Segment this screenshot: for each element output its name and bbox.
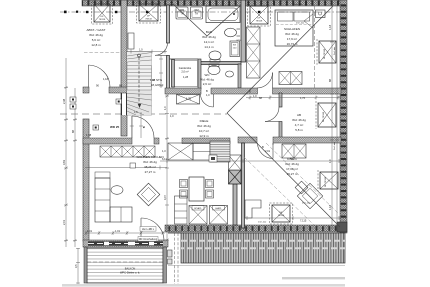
- svg-text:TR: TR: [195, 13, 198, 16]
- roof hip line east: [227, 6, 333, 113]
- svg-text:17,9 m²: 17,9 m²: [287, 37, 297, 41]
- svg-text:DF 78/118: DF 78/118: [324, 48, 326, 59]
- room label diele: [197, 119, 211, 138]
- svg-text:12,9 m: 12,9 m: [199, 134, 209, 138]
- svg-text:2m Linie: 2m Linie: [334, 46, 336, 55]
- svg-text:Wd: 46 dg: Wd: 46 dg: [285, 162, 299, 166]
- svg-text:38,26 m²: 38,26 m²: [144, 165, 156, 169]
- svg-text:1,38: 1,38: [86, 133, 92, 137]
- wall bath/bedroom: [241, 0, 246, 62]
- wall bath left: [167, 5, 170, 89]
- svg-text:Garderobe: Garderobe: [179, 66, 192, 70]
- svg-text:2,6 m²: 2,6 m²: [203, 82, 212, 86]
- wall ab left: [279, 93, 282, 138]
- svg-text:1,01: 1,01: [87, 229, 93, 233]
- svg-text:2m Linie: 2m Linie: [296, 23, 305, 25]
- desk kind: [245, 200, 261, 218]
- svg-text:1m Linie: 1m Linie: [258, 222, 267, 224]
- svg-text:SP/APL: SP/APL: [194, 207, 202, 210]
- dresser bedroom south (x-box): [279, 72, 302, 85]
- washbasin bath: [225, 28, 241, 37]
- room label kind: [285, 157, 299, 176]
- 2m line dash abst: [84, 52, 121, 54]
- svg-text:17,09 m²: 17,09 m²: [286, 167, 298, 171]
- dining chairs: [180, 180, 214, 199]
- svg-text:RD Umschaltung: RD Umschaltung: [139, 238, 158, 241]
- wall garderobe right: [198, 59, 201, 89]
- wm tr labels: [180, 9, 242, 50]
- dimension chain kind south: [245, 216, 341, 220]
- toilet wc: [208, 64, 220, 75]
- nightstand right: [316, 10, 326, 18]
- wall wc top: [200, 62, 241, 65]
- balcony deck: [84, 247, 167, 283]
- chimney wall center: [121, 0, 127, 136]
- svg-text:78/118: 78/118: [99, 19, 106, 21]
- dimension chain left outside: [64, 58, 77, 247]
- wall kind north: [238, 137, 341, 143]
- kitchen wall units: [168, 141, 230, 162]
- wall living south (balcony front): [83, 240, 168, 247]
- room label balkon: [120, 267, 140, 275]
- svg-text:1,0: 1,0: [328, 159, 332, 163]
- washing machine WM: [176, 7, 188, 19]
- svg-text:B: B: [206, 89, 208, 93]
- svg-text:4,7 m²: 4,7 m²: [295, 123, 304, 127]
- 2m line dash bedroom vertical: [314, 6, 316, 88]
- marker squares left wall: [70, 97, 217, 168]
- svg-text:SCHLAFEN: SCHLAFEN: [284, 27, 300, 31]
- door D6 kind: [258, 143, 274, 159]
- svg-text:H/APL: H/APL: [215, 207, 222, 210]
- svg-text:6,11: 6,11: [162, 157, 167, 161]
- wall kitchen right: [233, 184, 237, 225]
- svg-text:4,07: 4,07: [163, 194, 167, 200]
- exterior wall bottom (south, rooms): [165, 222, 347, 232]
- svg-text:12,8 m: 12,8 m: [91, 43, 101, 47]
- svg-text:1,0: 1,0: [139, 48, 143, 52]
- 2m linie labels: [258, 4, 336, 224]
- room label schlafen: [284, 27, 300, 46]
- skylight DF4 bedroom east: [317, 39, 336, 65]
- svg-text:⌀: ⌀: [143, 125, 145, 129]
- room label garderobe: [179, 66, 192, 74]
- svg-text:5,6 m²: 5,6 m²: [92, 38, 101, 42]
- exterior wall right: [340, 0, 347, 233]
- skylight DF2: [137, 2, 161, 23]
- svg-text:WC: WC: [205, 73, 211, 77]
- door D8 balcony: [141, 218, 164, 241]
- stair walk line: [138, 54, 142, 108]
- dining table: [189, 177, 204, 201]
- svg-text:1,01: 1,01: [115, 229, 121, 233]
- roof surface south: [168, 233, 345, 284]
- door D1 abst/gast: [89, 65, 111, 87]
- door D4 schlafen: [257, 73, 273, 89]
- svg-text:1,0: 1,0: [253, 94, 257, 98]
- room label abst/gast: [86, 28, 105, 47]
- stair label: [151, 78, 164, 87]
- downpipe right of balcony: [168, 250, 173, 264]
- dim texts small: [86, 75, 307, 233]
- sofa living: [95, 172, 132, 222]
- wardrobe kind north (x-box): [282, 144, 306, 158]
- svg-text:16,73 m: 16,73 m: [287, 42, 298, 46]
- room label wohnen kochen: [136, 155, 163, 174]
- section line markers top: [64, 11, 260, 14]
- door D7 living/hall: [132, 116, 154, 138]
- dimension chain living horizontal: [85, 159, 341, 170]
- skylight DF7 kind south: [270, 203, 293, 224]
- svg-text:3,5: 3,5: [74, 264, 78, 268]
- stair handrail nib: [128, 33, 134, 49]
- desk chair diamond kind: [295, 181, 323, 209]
- kitchen island: [189, 206, 228, 225]
- dimension hall verticals: [130, 112, 143, 138]
- section line middle (dash): [60, 113, 227, 115]
- svg-text:2m Linie: 2m Linie: [334, 141, 336, 150]
- door D3 wc: [201, 94, 214, 107]
- bed: [275, 10, 313, 46]
- svg-text:1,75: 1,75: [186, 97, 192, 101]
- wall living north left: [83, 138, 159, 144]
- svg-text:1,3: 1,3: [162, 149, 166, 153]
- svg-text:1,0: 1,0: [206, 93, 210, 97]
- dimension chain living south interior: [85, 231, 165, 235]
- wall kind left: [242, 143, 245, 228]
- svg-text:1,18: 1,18: [328, 204, 332, 210]
- svg-text:Wd: 46 dg: Wd: 46 dg: [292, 118, 306, 122]
- wall hall north (garderobe/wc south): [165, 88, 341, 94]
- wall diele north right: [182, 138, 230, 144]
- svg-text:78/118: 78/118: [256, 21, 263, 23]
- svg-text:AB: AB: [297, 113, 301, 117]
- svg-text:2,0 m²: 2,0 m²: [181, 70, 188, 74]
- staircase: [127, 52, 152, 115]
- roof valley line long: [227, 113, 340, 227]
- svg-text:WPC-Dielen o. ä.: WPC-Dielen o. ä.: [120, 271, 140, 275]
- svg-text:Wd: 46 dg: Wd: 46 dg: [143, 160, 157, 164]
- svg-text:2m Linie: 2m Linie: [302, 203, 311, 205]
- svg-text:2,01: 2,01: [62, 219, 66, 225]
- svg-text:27,27 m: 27,27 m: [145, 170, 156, 174]
- svg-text:7,115: 7,115: [300, 219, 307, 223]
- svg-text:12,1 m²: 12,1 m²: [204, 40, 214, 44]
- svg-text:15,27 m: 15,27 m: [287, 172, 298, 176]
- svg-text:1,0: 1,0: [134, 110, 138, 114]
- dryer TR: [191, 7, 203, 19]
- armchair diamond living: [137, 183, 160, 206]
- svg-text:1,18: 1,18: [103, 77, 109, 81]
- svg-text:TR: TR: [180, 13, 183, 16]
- svg-text:2m Linie: 2m Linie: [294, 4, 303, 6]
- kitchen tall cabinet: [175, 196, 188, 224]
- section line top (dash-dot): [60, 11, 345, 13]
- dimension chain balcony left: [76, 248, 80, 284]
- wall wc right: [238, 64, 241, 88]
- svg-text:DF 78/118: DF 78/118: [325, 176, 327, 187]
- dimension line east interior vertical: [330, 6, 339, 230]
- svg-text:3,63: 3,63: [62, 159, 66, 165]
- shower/shaft bath: [230, 41, 240, 57]
- svg-text:WD 25: WD 25: [110, 125, 120, 129]
- svg-text:14,1 m: 14,1 m: [204, 45, 214, 49]
- exterior wall top: [82, 0, 345, 6]
- svg-text:Wd: 46 dg: Wd: 46 dg: [89, 33, 103, 37]
- svg-text:Wd: 46 dg: Wd: 46 dg: [285, 32, 299, 36]
- sideboard living (x-row): [100, 146, 155, 157]
- wall garderobe top: [170, 58, 199, 60]
- closet hall (x-box): [229, 155, 242, 170]
- svg-text:Vent +RD L: Vent +RD L: [142, 228, 155, 231]
- dimension line stair top: [127, 50, 167, 54]
- svg-text:DF 78/118: DF 78/118: [323, 111, 325, 122]
- svg-text:1,38: 1,38: [150, 78, 156, 82]
- svg-text:B: B: [249, 90, 251, 94]
- dimension chain hall east horizontal: [246, 96, 341, 100]
- svg-text:18,4/25,0: 18,4/25,0: [151, 83, 164, 87]
- skylight DF6 kind east: [318, 170, 338, 191]
- skylight DF5 ab east: [316, 101, 336, 129]
- wardrobe hall (x-box under wall): [177, 95, 200, 105]
- svg-text:B: B: [262, 145, 264, 149]
- dimension line landing vertical: [159, 55, 163, 88]
- coffee table living: [111, 186, 123, 195]
- svg-text:BALKON: BALKON: [125, 267, 136, 271]
- svg-text:Wd: 46 dg: Wd: 46 dg: [200, 78, 214, 82]
- vent labels balcony door: [138, 227, 158, 242]
- chimney kitchen: [229, 170, 242, 184]
- toilet bath: [209, 51, 221, 62]
- dimension chain living interior vertical: [165, 94, 169, 241]
- svg-text:BAD: BAD: [206, 30, 213, 34]
- svg-text:1,76: 1,76: [300, 96, 306, 100]
- footer faint bars: [62, 284, 345, 287]
- svg-text:Wd: 46 dg: Wd: 46 dg: [202, 35, 216, 39]
- wall abst south (with door gap): [83, 87, 127, 93]
- skylight small labels: [99, 16, 285, 218]
- room label bad: [202, 30, 216, 49]
- bathtub: [206, 6, 240, 23]
- 2m line dash bedroom horizontal: [276, 24, 313, 26]
- washbasin wc: [226, 71, 234, 77]
- svg-text:10,7 m²: 10,7 m²: [199, 129, 209, 133]
- svg-text:1,18: 1,18: [328, 24, 332, 30]
- svg-text:DIELE: DIELE: [200, 119, 209, 123]
- room label wc: [200, 73, 214, 86]
- svg-text:90/: 90/: [233, 45, 236, 47]
- roof ridge lines bath: [173, 4, 240, 36]
- svg-text:5,8 m: 5,8 m: [295, 128, 303, 132]
- svg-text:2,38: 2,38: [62, 98, 66, 104]
- svg-text:2,01: 2,01: [265, 149, 271, 153]
- svg-text:WOHNEN KOCHEN: WOHNEN KOCHEN: [136, 155, 163, 159]
- svg-text:Wd: 46 dg: Wd: 46 dg: [197, 124, 211, 128]
- svg-text:1,28: 1,28: [183, 75, 189, 79]
- skylight DF1: [92, 2, 113, 24]
- svg-text:1,0: 1,0: [170, 114, 174, 118]
- garderobe closet outline: [172, 61, 198, 87]
- exterior wall left: [83, 119, 89, 241]
- svg-text:78/118: 78/118: [278, 215, 285, 217]
- svg-text:ABST. / GAST: ABST. / GAST: [86, 28, 105, 32]
- skylight DF3 bedroom: [248, 6, 271, 26]
- svg-text:4,11: 4,11: [290, 157, 295, 161]
- 2m line dashes kind: [244, 143, 339, 225]
- svg-text:78/118: 78/118: [145, 19, 152, 21]
- room label ab: [292, 113, 306, 132]
- bedroom closet tower: [247, 27, 261, 78]
- door D2 bath: [155, 43, 168, 56]
- door D5 ab: [265, 107, 279, 122]
- svg-text:1,0: 1,0: [163, 106, 167, 110]
